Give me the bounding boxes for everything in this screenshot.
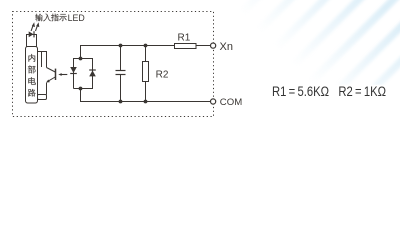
opto LED D2 (pointing down) [70,67,77,73]
wire: capacitor top lead [120,46,122,71]
phototransistor Q1 emitter lead with arrow [47,77,55,82]
wire: bottom rail [80,101,211,103]
node: diode pair bottom junction [79,87,83,91]
label: 内部电路 (internal circuit) vertical text [28,54,35,62]
light coupling arrow (into phototransistor) [61,74,68,76]
node: capacitor bottom junction [119,100,123,104]
phototransistor Q1 collector lead [47,68,56,73]
svg-text:Xn: Xn [220,41,233,53]
internal circuit box side face edge (top) [41,52,43,68]
wire: emitter stub to internal circuit box pad [46,83,48,95]
node: R2 top junction [144,44,148,48]
svg-text:COM: COM [220,97,242,108]
wire: top rail [80,45,175,47]
phototransistor Q1 base bar [55,69,57,80]
label: 输入指示LED (input indicator LED) [35,14,43,21]
resistor R2 [143,62,149,82]
wire: feed from top rail to diode pair [80,46,82,59]
terminal Xn [211,43,216,48]
terminal COM [211,99,216,104]
node: diode pair top junction [79,57,83,61]
wire: R2 bottom lead [145,82,147,102]
wire: diode pair to bottom rail [80,89,82,102]
wire: capacitor bottom lead [120,75,122,102]
dashed enclosure box (PLC input unit boundary) [13,12,214,117]
internal circuit box (内部电路) [26,47,38,104]
resistor R1 [175,44,197,49]
wire: R2 top lead [145,46,147,62]
svg-text:R1: R1 [178,33,191,44]
capacitor C1 [116,70,126,72]
svg-text:R2: R2 [156,70,169,81]
LED housing / connection to internal circuit [27,35,37,47]
node: capacitor top junction [119,44,123,48]
internal circuit box bottom connection pad [38,95,47,100]
node: R2 bottom junction [144,100,148,104]
svg-text:R1 = 5.6KΩ R2 = 1KΩ: R1 = 5.6KΩ R2 = 1KΩ [272,84,386,99]
opto LED D3 (pointing up, anti-parallel) [89,69,96,71]
wire: collector stub from internal circuit box [38,52,47,68]
decorative diagonal streaks [222,0,400,85]
wire: diode pair loop [74,59,93,89]
LED D1 (input indicator) [27,31,37,37]
svg-text:LED: LED [68,13,85,23]
LED emission arrow 1 [31,22,35,31]
LED emission arrow 2 [36,22,40,31]
wire: R1 to Xn terminal [196,45,211,47]
